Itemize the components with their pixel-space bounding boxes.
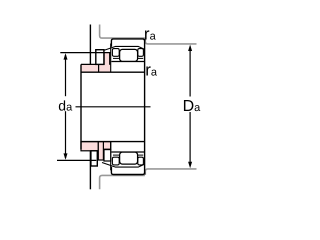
svg-text:da: da: [58, 97, 73, 113]
Da arrow down: [188, 162, 192, 168]
lip left edge: [103, 53, 105, 65]
cage bar lower right: [138, 157, 144, 165]
shaft seat upper: [81, 71, 145, 73]
da extension line lower: [57, 159, 96, 161]
Da dimension line upper segment: [189, 47, 191, 97]
loose rib ring lower (white): [104, 150, 111, 161]
outer raceway profile upper: [102, 46, 144, 51]
da arrow up: [64, 53, 68, 59]
Da dimension line lower segment: [189, 112, 191, 166]
lip right edge: [109, 53, 111, 65]
band top edge: [81, 63, 104, 65]
cage bar upper right: [138, 49, 144, 57]
da dimension line upper segment: [65, 55, 67, 96]
da arrow down: [64, 153, 68, 159]
outer raceway profile lower: [102, 163, 144, 168]
roller upper: [120, 49, 138, 61]
intermediate ring B' band part (pink, lower): [99, 142, 111, 150]
housing outline upper (gray): [100, 25, 145, 39]
shaft seat lower: [81, 141, 145, 143]
shaft abutment spacer rings band (pink, upper): [81, 64, 111, 72]
abutment face line upper left (black): [89, 25, 91, 65]
svg-text:ra: ra: [145, 61, 158, 80]
loose rib ring lip fill (pink, upper): [104, 53, 110, 72]
svg-text:ra: ra: [144, 24, 157, 43]
outer ring lower: [111, 167, 144, 175]
cage chamfer mark upper left: [113, 57, 119, 59]
housing outline lower (gray): [100, 175, 145, 189]
outer ring upper: [111, 39, 144, 47]
roller lower: [120, 152, 138, 164]
locating ring lower (white): [91, 151, 97, 166]
abutment face line lower left (black): [89, 151, 91, 190]
da extension line upper: [60, 52, 110, 54]
bearing right face / shaft end: [144, 39, 146, 175]
Da arrow up: [188, 45, 192, 51]
cage chamfer mark upper right: [138, 57, 143, 59]
inner ring left face upper: [110, 44, 112, 73]
housing shoulder lower (gray): [145, 169, 196, 175]
inner raceway upper: [111, 61, 144, 63]
band divider: [98, 58, 100, 73]
intermediate ring B' column (pink, lower): [98, 142, 103, 160]
centerline: [76, 106, 151, 108]
housing shoulder upper (gray): [145, 39, 196, 44]
cage chamfer mark lower right: [138, 154, 143, 156]
da dimension line lower segment: [65, 111, 67, 158]
shaft left face: [80, 64, 82, 149]
cage bar lower left: [112, 157, 119, 165]
locating ring upper (white): [96, 50, 104, 65]
spacer ring A' (pink, lower): [81, 142, 98, 151]
inner ring left face lower: [110, 142, 112, 171]
cage bar upper left: [112, 49, 119, 57]
cage chamfer mark lower left: [113, 154, 119, 156]
inner raceway lower: [111, 151, 144, 153]
svg-text:Da: Da: [183, 98, 202, 115]
